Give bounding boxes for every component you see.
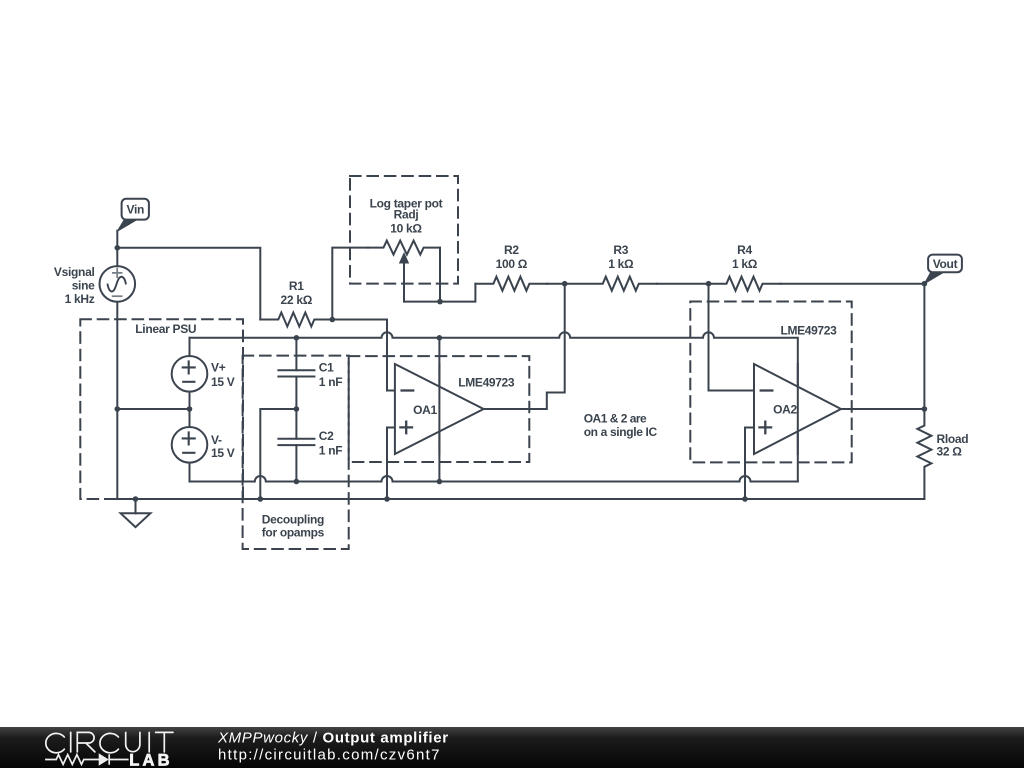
capacitor C2 xyxy=(278,439,314,445)
junction C2 bottom on V- rail xyxy=(294,479,300,485)
resistor R1 xyxy=(260,313,332,327)
svg-text:10 kΩ: 10 kΩ xyxy=(390,221,422,235)
wire R2 to R3 xyxy=(547,283,564,285)
svg-text:sine: sine xyxy=(72,279,95,293)
junction Vout node xyxy=(922,281,928,287)
svg-text:15 V: 15 V xyxy=(211,446,235,460)
svg-text:OA2: OA2 xyxy=(773,402,797,416)
wire pot right terminal down xyxy=(439,248,441,302)
wire Vout column down to OA2 output node xyxy=(923,284,925,409)
svg-text:C2: C2 xyxy=(319,429,334,443)
wire V- source bottom stem xyxy=(189,463,191,482)
ground xyxy=(121,499,151,527)
op-amp OA2 dashed enclosure box xyxy=(690,302,851,463)
wire Vsignal down to ground rail xyxy=(116,302,118,499)
svg-text:R3: R3 xyxy=(613,243,628,257)
wire OA1 non-inverting input to ground rail xyxy=(387,428,395,500)
junction OA2 +in at ground rail xyxy=(742,496,748,502)
wire feedback from R2/R3 node down to OA1 output xyxy=(484,284,565,409)
wire C2 bottom stem xyxy=(295,445,297,481)
svg-text:1 kΩ: 1 kΩ xyxy=(732,257,758,271)
footer bar xyxy=(0,727,1024,768)
wire V+ source top stem xyxy=(189,338,191,356)
footer logo resistor-diode artwork xyxy=(45,754,128,765)
pot dashed enclosure box xyxy=(350,176,458,284)
wire OA1 power pins xyxy=(438,338,440,482)
wire OA2 non-inverting input to ground rail xyxy=(745,428,754,500)
wire Vin stem xyxy=(116,231,118,267)
op-amp OA1 xyxy=(395,364,484,454)
svg-text:for opamps: for opamps xyxy=(262,526,325,540)
svg-text:1 kHz: 1 kHz xyxy=(65,292,95,306)
resistor R4 xyxy=(709,277,781,291)
wire C1 top stem xyxy=(295,338,297,370)
svg-text:R2: R2 xyxy=(504,243,519,257)
svg-text:15 V: 15 V xyxy=(211,375,235,389)
wire OA2 output xyxy=(841,408,924,410)
capacitor C1 xyxy=(278,370,314,376)
wire Vin node to R1 top corner xyxy=(117,248,260,320)
svg-text:V-: V- xyxy=(211,433,222,447)
junction decoupling mid node xyxy=(294,406,300,412)
svg-text:R1: R1 xyxy=(289,279,304,293)
wire R3 to R4 xyxy=(657,283,709,285)
Linear PSU dashed enclosure box xyxy=(80,319,243,499)
junction Vin node xyxy=(115,245,121,251)
resistor Rload xyxy=(917,409,931,499)
junction ground symbol node xyxy=(133,496,139,502)
svg-text:Linear PSU: Linear PSU xyxy=(135,322,196,336)
svg-text:on a single IC: on a single IC xyxy=(584,425,658,439)
svg-text:Vin: Vin xyxy=(127,203,145,217)
svg-text:Decoupling: Decoupling xyxy=(262,512,324,526)
svg-text:C1: C1 xyxy=(319,360,334,374)
svg-text:1 nF: 1 nF xyxy=(319,444,342,458)
svg-text:100 Ω: 100 Ω xyxy=(496,257,528,271)
wire decoupling mid node to ground rail xyxy=(260,409,296,499)
svg-text:LME49723: LME49723 xyxy=(458,376,515,390)
svg-text:32 Ω: 32 Ω xyxy=(937,445,963,459)
wire C1 bottom to C2 top xyxy=(295,377,297,439)
svg-text:V+: V+ xyxy=(211,361,226,375)
net flag Vin xyxy=(117,199,149,231)
voltage source V+ xyxy=(172,356,208,392)
wire R4 to Vout node xyxy=(781,283,925,285)
wire PSU mid tap to Vsignal column xyxy=(117,408,189,410)
resistor R2 xyxy=(475,277,547,291)
junction PSU tap at Vsignal column xyxy=(115,406,121,412)
svg-text:R4: R4 xyxy=(737,243,752,257)
wire ground rail xyxy=(117,498,924,500)
svg-text:1 kΩ: 1 kΩ xyxy=(608,257,634,271)
wire V+ to V- middle stem xyxy=(189,392,191,427)
junction R2/R3 node xyxy=(562,281,568,287)
voltage source Vsignal xyxy=(100,266,136,302)
wire V- rail (hops at 260.3, 387, 745) xyxy=(190,476,798,482)
potentiometer Radj xyxy=(368,241,440,255)
potentiometer wiper arrow xyxy=(403,263,405,302)
junction between V+ and V- xyxy=(187,406,193,412)
junction R1 right node xyxy=(330,317,336,323)
svg-text:OA1: OA1 xyxy=(413,403,437,417)
decoupling dashed enclosure box xyxy=(243,356,349,549)
svg-text:OA1 & 2 are: OA1 & 2 are xyxy=(584,412,647,426)
svg-text:Vsignal: Vsignal xyxy=(54,265,95,279)
wire R1 node to OA1 inverting input xyxy=(332,320,395,391)
wire R3/R4 node down to OA2 inverting input xyxy=(709,284,755,391)
svg-text:22 kΩ: 22 kΩ xyxy=(281,293,313,307)
svg-text:1 nF: 1 nF xyxy=(319,375,342,389)
svg-text:LAB: LAB xyxy=(129,752,173,768)
resistor R3 xyxy=(565,277,657,291)
wire wiper row to R2 xyxy=(404,284,475,302)
junction C1 top on V+ rail xyxy=(294,335,300,341)
svg-text:LME49723: LME49723 xyxy=(781,323,838,337)
junction OA1 V- pin xyxy=(437,479,443,485)
svg-text:XMPPwocky / Output amplifier: XMPPwocky / Output amplifier xyxy=(217,730,449,747)
svg-text:Vout: Vout xyxy=(933,257,958,271)
wire R1 node up to pot row xyxy=(332,248,368,320)
junction R3/R4 node xyxy=(706,281,712,287)
op-amp OA1 dashed enclosure box xyxy=(349,356,530,462)
junction pot wiper node xyxy=(437,299,443,305)
svg-text:http://circuitlab.com/czv6nt7: http://circuitlab.com/czv6nt7 xyxy=(218,747,441,764)
footer logo CIRCUIT (hand-drawn thin letters) xyxy=(46,732,173,752)
junction OA1 +in at ground rail xyxy=(384,496,390,502)
junction decoupling at ground rail xyxy=(258,496,264,502)
net flag Vout xyxy=(924,255,961,284)
op-amp OA2 xyxy=(754,364,841,454)
voltage source V- xyxy=(172,427,208,463)
wire V+ rail (hops at 387, 564.7, 708.5) then down to OA2 V+ pin xyxy=(190,332,798,481)
junction OA1 V+ pin xyxy=(437,335,443,341)
junction OA2 output / Rload xyxy=(922,406,928,412)
svg-text:Radj: Radj xyxy=(394,208,419,222)
